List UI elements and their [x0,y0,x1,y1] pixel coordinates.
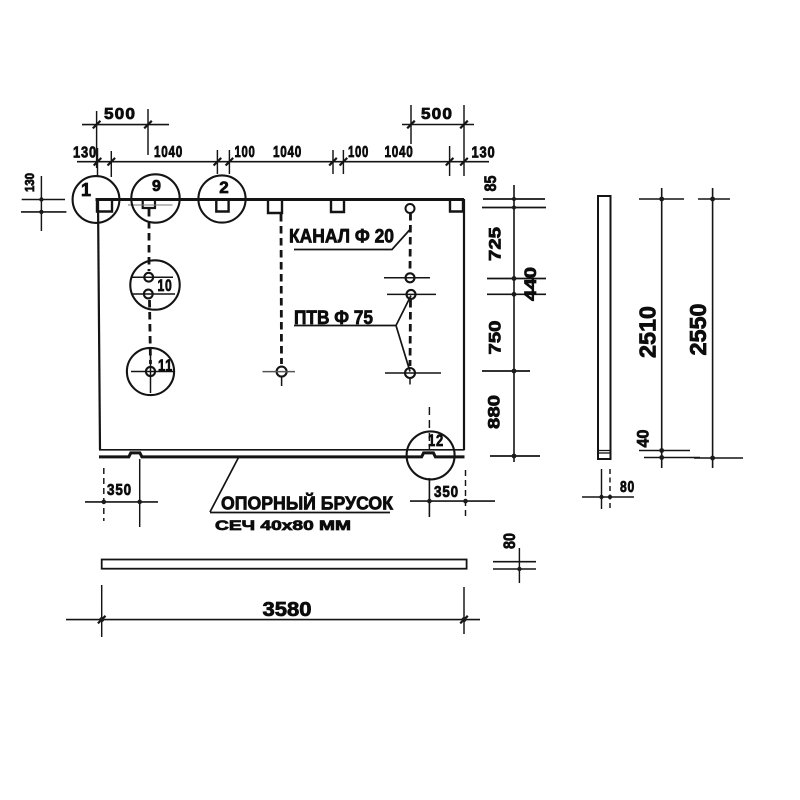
svg-text:880: 880 [485,395,504,429]
svg-text:130: 130 [472,145,496,162]
svg-text:1040: 1040 [273,144,302,161]
svg-text:СЕЧ 40х80 ММ: СЕЧ 40х80 ММ [215,517,351,533]
svg-text:100: 100 [235,144,256,161]
svg-text:2: 2 [219,178,229,197]
svg-text:440: 440 [521,267,540,301]
svg-text:11: 11 [158,356,173,375]
svg-text:80: 80 [620,479,635,496]
svg-text:500: 500 [421,106,453,123]
svg-text:80: 80 [500,533,519,549]
svg-text:725: 725 [486,227,505,261]
svg-text:ОПОРНЫЙ БРУСОК: ОПОРНЫЙ БРУСОК [221,493,394,514]
svg-text:КАНАЛ Ф 20: КАНАЛ Ф 20 [289,227,394,248]
svg-text:9: 9 [152,178,162,195]
svg-text:1040: 1040 [154,144,183,161]
svg-text:2550: 2550 [685,304,711,356]
svg-text:130: 130 [73,145,97,162]
svg-text:3580: 3580 [263,599,312,621]
svg-text:ПТВ Ф 75: ПТВ Ф 75 [294,308,373,329]
svg-text:1040: 1040 [385,144,414,161]
svg-text:40: 40 [634,430,653,448]
svg-text:2510: 2510 [635,306,661,358]
svg-text:100: 100 [348,144,369,161]
svg-text:1: 1 [81,180,92,200]
svg-text:130: 130 [22,173,37,192]
svg-text:85: 85 [481,176,500,192]
svg-text:10: 10 [158,276,173,295]
svg-text:350: 350 [107,482,132,499]
svg-text:350: 350 [434,484,459,501]
svg-text:12: 12 [428,431,444,450]
svg-text:750: 750 [486,321,505,355]
svg-text:500: 500 [104,106,136,123]
